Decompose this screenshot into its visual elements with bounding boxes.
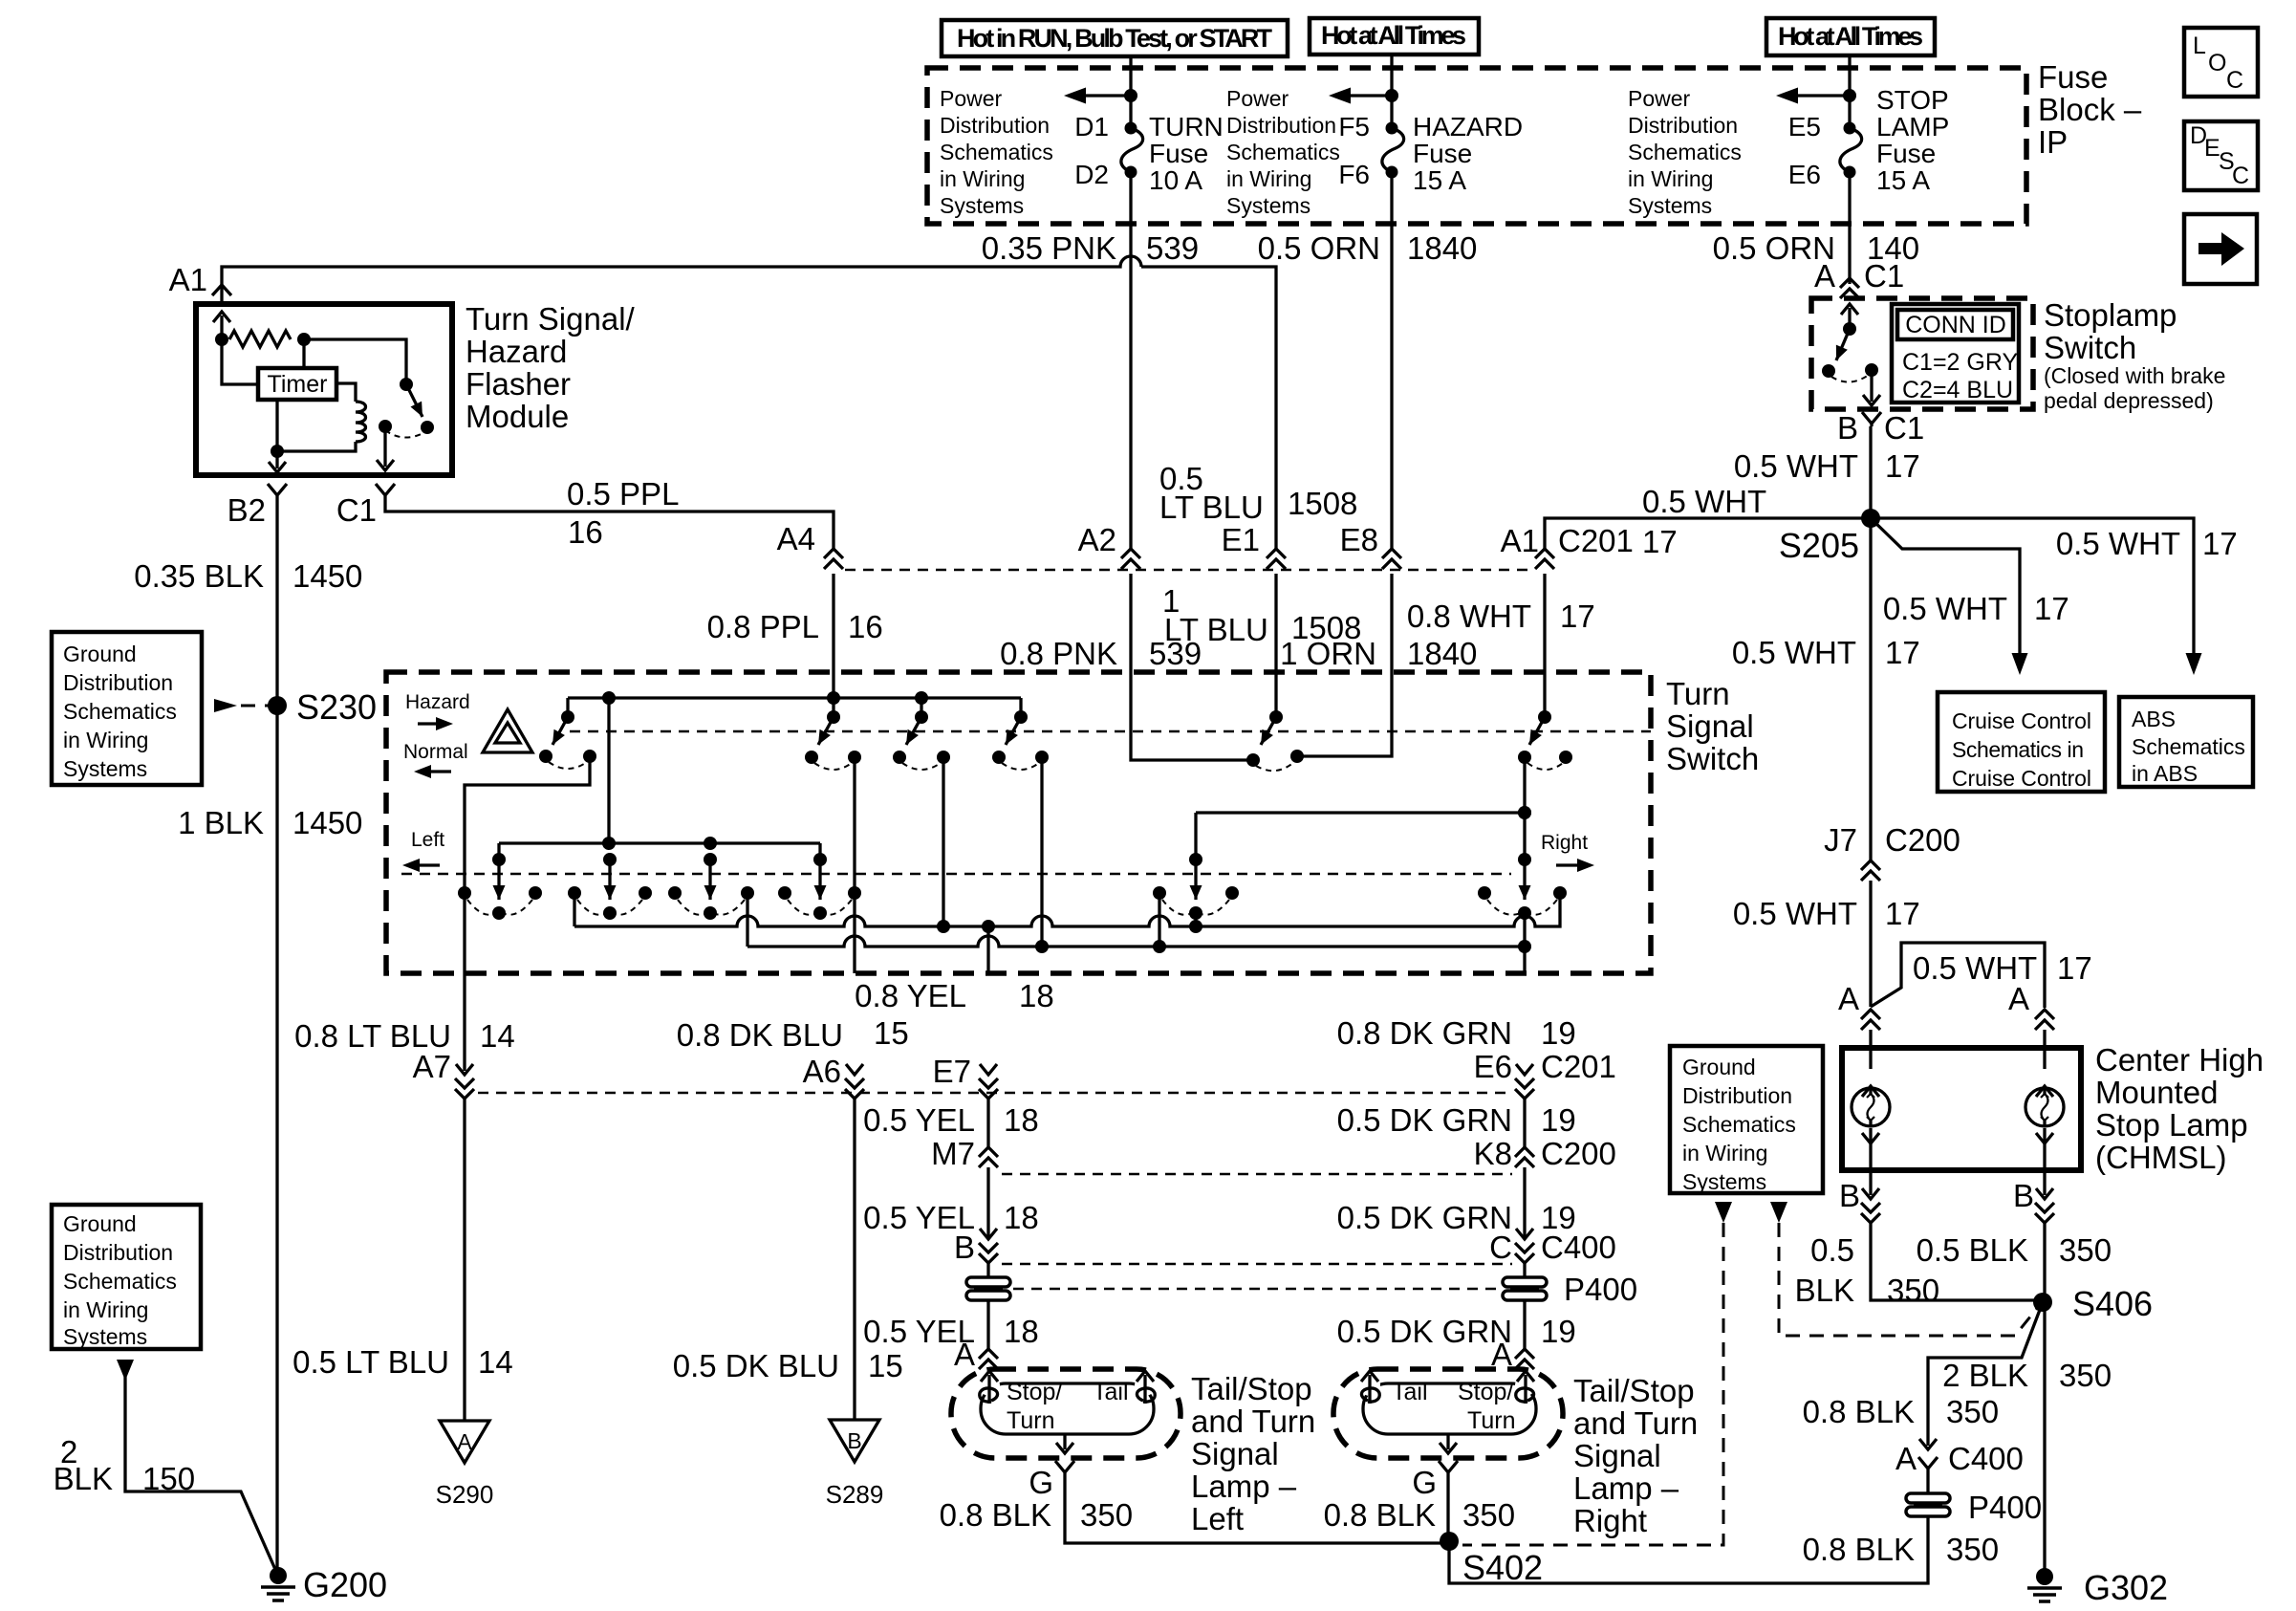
svg-text:0.5 DK GRN: 0.5 DK GRN (1337, 1314, 1512, 1349)
node S205 (1779, 509, 1880, 565)
inline connector P400 (1906, 1490, 2042, 1525)
label: 0.5 YEL | 18 third (863, 1314, 1039, 1349)
wire: DK GRN segment to K8 (1523, 1099, 1526, 1147)
right lamp tail filament (1361, 1371, 1379, 1404)
svg-text:Cruise Control: Cruise Control (1952, 766, 2091, 791)
svg-text:Turn Signal/: Turn Signal/ (466, 301, 636, 337)
label A | C1 (1814, 258, 1904, 294)
svg-text:Schematics: Schematics (1226, 140, 1340, 164)
svg-text:G: G (1029, 1465, 1053, 1500)
svg-text:Right: Right (1573, 1503, 1647, 1538)
svg-text:E7: E7 (933, 1054, 971, 1089)
svg-text:19: 19 (1541, 1314, 1576, 1349)
svg-text:S205: S205 (1779, 526, 1859, 565)
stoplamp switch output (1863, 363, 1880, 405)
wire: E1 1508 into switch (1274, 574, 1277, 717)
hazard triangle symbol (483, 709, 532, 752)
label: 0.5 WHT | 17 in bracket (1913, 950, 2092, 986)
middle contact 1251 (1153, 813, 1239, 926)
svg-text:0.5 YEL: 0.5 YEL (863, 1102, 975, 1138)
svg-text:15: 15 (868, 1348, 903, 1383)
cruise control box (1938, 692, 2105, 792)
svg-text:18: 18 (1019, 978, 1054, 1013)
svg-text:A1: A1 (1501, 523, 1539, 558)
LOC box (2184, 28, 2258, 97)
TURN fuse D1/D2 (1074, 112, 1142, 189)
label: Turn Signal/ Hazard Flasher Module (466, 301, 636, 434)
svg-text:17: 17 (2034, 591, 2069, 626)
label: Stop/ Turn (1007, 1379, 1062, 1434)
connector C1 chevron (336, 484, 395, 528)
svg-text:350: 350 (1080, 1497, 1133, 1533)
svg-text:B: B (954, 1230, 975, 1265)
label: 0.8 WHT | 17 (1407, 599, 1595, 634)
svg-text:C201: C201 (1541, 1049, 1616, 1084)
power distribution note 2 (1226, 86, 1340, 218)
svg-text:A2: A2 (1078, 522, 1116, 557)
wire: drop 1090 to bus2 (1040, 757, 1043, 947)
svg-text:A: A (1814, 258, 1835, 294)
wire: YEL segment to A (986, 1300, 989, 1349)
svg-text:Systems: Systems (63, 1324, 147, 1349)
contact E1 (1246, 710, 1304, 771)
svg-text:in Wiring: in Wiring (940, 166, 1025, 191)
svg-text:C400: C400 (1948, 1441, 2024, 1476)
svg-text:A: A (2008, 981, 2029, 1016)
svg-text:B: B (847, 1428, 861, 1453)
svg-text:16: 16 (568, 514, 603, 550)
svg-text:G: G (1412, 1465, 1437, 1500)
label: 0.8 BLK | 350 right (1324, 1497, 1515, 1533)
connector K8 chevron (1515, 1147, 1534, 1167)
label: 0.8 YEL | 18 (855, 978, 1054, 1013)
lower contact 743 (668, 853, 754, 920)
svg-text:Left: Left (1191, 1501, 1244, 1536)
wire: 0.5 DK BLU down to S289 (853, 1099, 856, 1420)
connector A C1 chevron (1840, 278, 1859, 298)
label: 0.8 PPL | 16 (707, 609, 883, 644)
svg-text:0.5 WHT: 0.5 WHT (1883, 591, 2007, 626)
label: 1 ORN | 1840 (1280, 636, 1477, 671)
svg-text:Tail/Stop: Tail/Stop (1573, 1373, 1695, 1408)
wire: timer right to coil (336, 383, 356, 402)
wire: E7 leg from bus1 (986, 926, 989, 973)
svg-text:Distribution: Distribution (63, 1240, 173, 1265)
svg-text:F5: F5 (1338, 112, 1370, 142)
svg-text:350: 350 (1946, 1394, 1999, 1429)
svg-text:in ABS: in ABS (2132, 761, 2198, 786)
label: Stoplamp Switch (2044, 297, 2225, 413)
svg-text:Normal: Normal (403, 741, 468, 763)
svg-text:A: A (954, 1337, 975, 1372)
svg-text:0.5 LT BLU: 0.5 LT BLU (292, 1344, 449, 1380)
label: Fuse Block - IP (2038, 59, 2142, 160)
label: 0.5 WHT | 17 right branch (2056, 526, 2238, 561)
svg-text:K8: K8 (1474, 1136, 1512, 1171)
svg-text:18: 18 (1004, 1200, 1039, 1235)
left lamp dashed stadium (951, 1369, 1180, 1458)
svg-text:F6: F6 (1338, 160, 1370, 189)
svg-text:0.8 BLK: 0.8 BLK (1324, 1497, 1436, 1533)
lower contact 638 (568, 853, 652, 920)
svg-text:1 ORN: 1 ORN (1280, 636, 1376, 671)
svg-text:C1=2 GRY: C1=2 GRY (1902, 349, 2018, 376)
svg-text:D1: D1 (1074, 112, 1109, 142)
svg-text:17: 17 (1560, 599, 1595, 634)
left lamp tail filament (1137, 1371, 1155, 1404)
svg-text:Schematics: Schematics (940, 140, 1053, 164)
svg-text:Ground: Ground (63, 1211, 137, 1236)
svg-text:Signal: Signal (1573, 1438, 1661, 1473)
label: 0.5 YEL | 18 (863, 1102, 1039, 1138)
svg-text:Hazard: Hazard (466, 334, 567, 369)
svg-text:BLK: BLK (1795, 1273, 1854, 1308)
label: 0.8 PNK | 539 (1000, 636, 1202, 671)
connector E1 chevron (1267, 549, 1286, 569)
svg-text:Power: Power (1628, 86, 1691, 111)
label: Center High Mounted Stop Lamp (CHMSL) (2095, 1042, 2264, 1175)
power distribution note 1 (940, 86, 1053, 218)
dashed ground lead to S406 (1770, 1202, 2039, 1336)
flasher module box (196, 304, 452, 475)
svg-text:Schematics: Schematics (63, 699, 177, 724)
connector A chevron right (2035, 1010, 2054, 1030)
coil (356, 402, 366, 442)
svg-text:C1: C1 (1884, 410, 1924, 446)
svg-text:and Turn: and Turn (1191, 1404, 1315, 1439)
label: 1 BLK | 1450 (178, 805, 362, 840)
svg-text:Hot at All Times: Hot at All Times (1321, 21, 1466, 50)
svg-text:Stoplamp: Stoplamp (2044, 297, 2177, 333)
svg-text:17: 17 (1885, 635, 1920, 670)
svg-text:0.5 BLK: 0.5 BLK (1917, 1232, 2028, 1268)
wire: run feed into TURN fuse (1064, 56, 1137, 128)
svg-text:Flasher: Flasher (466, 366, 571, 402)
stoplamp switch dashed box (1811, 298, 2033, 409)
dashed connector row C400 (1002, 1263, 1512, 1265)
wire: DK GRN segment to C (1523, 1167, 1526, 1238)
lower bank feed rail (499, 837, 820, 850)
svg-text:D2: D2 (1074, 160, 1109, 189)
contact A1 right (1518, 710, 1572, 770)
connector B chevron (979, 1229, 998, 1263)
svg-text:C: C (1489, 1230, 1512, 1265)
svg-text:C2=4 BLU: C2=4 BLU (1902, 377, 2013, 403)
svg-text:0.5: 0.5 (1810, 1232, 1854, 1268)
label: 0.8 DK BLU | 15 (677, 1015, 909, 1053)
svg-text:A: A (1895, 1441, 1917, 1476)
svg-text:Schematics: Schematics (1628, 140, 1742, 164)
wire: S205 branch to cruise control (1871, 518, 2020, 658)
connector A4 chevron (824, 549, 843, 569)
label: 0.5 WHT | 17 cruise branch (1883, 591, 2069, 626)
ground distribution box lower (52, 1205, 201, 1349)
svg-text:G302: G302 (2084, 1568, 2168, 1607)
label: HAZARD Fuse 15 A (1413, 112, 1523, 195)
svg-text:539: 539 (1146, 230, 1199, 266)
dashed connector line C201 (845, 569, 1533, 571)
svg-text:Cruise Control: Cruise Control (1952, 708, 2091, 733)
label: Normal arrow (403, 741, 468, 778)
label: 0.5 ORN | 140 (1713, 230, 1919, 266)
svg-text:Stop Lamp: Stop Lamp (2095, 1107, 2248, 1143)
wire: 0.5 WHT from A1 C201 to S205 and to ABS (1545, 518, 2194, 658)
svg-text:17: 17 (1885, 448, 1920, 484)
svg-text:150: 150 (142, 1461, 195, 1496)
label: Stop/ Turn right lamp (1458, 1379, 1515, 1434)
dashed connector row C200 (1002, 1173, 1512, 1175)
svg-text:C201: C201 (1558, 523, 1634, 558)
stoplamp switch arm (1822, 304, 1858, 378)
right lamp ground exit (1439, 1434, 1458, 1477)
label: 0.5 DK GRN | 19 (1337, 1102, 1576, 1138)
svg-text:0.5 WHT: 0.5 WHT (2056, 526, 2180, 561)
wire: coil bottom to junction (277, 442, 356, 451)
svg-text:P400: P400 (1968, 1490, 2042, 1525)
svg-text:A: A (457, 1429, 472, 1454)
svg-text:Turn: Turn (1467, 1407, 1515, 1434)
svg-text:Timer: Timer (268, 371, 328, 398)
node: junction to B2 (269, 445, 286, 472)
svg-text:14: 14 (478, 1344, 513, 1380)
svg-text:1450: 1450 (292, 805, 362, 840)
svg-text:(CHMSL): (CHMSL) (2095, 1140, 2227, 1175)
arrowhead into cruise box (2012, 653, 2028, 675)
svg-text:Fuse: Fuse (1876, 139, 1936, 168)
svg-text:17: 17 (1642, 524, 1678, 559)
wire: S406 to C400 A (1928, 1302, 2043, 1446)
right lamp racetrack (1363, 1383, 1536, 1434)
svg-text:in Wiring: in Wiring (63, 728, 148, 752)
svg-text:Stop/: Stop/ (1007, 1379, 1062, 1405)
svg-text:A6: A6 (803, 1054, 841, 1089)
label: 0.8 BLK | 350 lower (1803, 1532, 1999, 1567)
svg-text:Center High: Center High (2095, 1042, 2264, 1078)
label: 0.5 LT BLU | 1508 (1159, 461, 1357, 525)
wire: DK GRN segment to A (1523, 1300, 1526, 1349)
svg-text:P400: P400 (1564, 1272, 1637, 1307)
switch feed bus top (568, 691, 1021, 705)
label: 0.35 PNK | 539 (982, 230, 1199, 266)
svg-text:Left: Left (411, 829, 444, 851)
svg-text:A4: A4 (777, 521, 815, 556)
label: Turn Signal Switch (1666, 676, 1759, 776)
wire: P400 down and across to S402 (1449, 1516, 1928, 1583)
connector A2 chevron (1121, 549, 1140, 569)
svg-text:Fuse: Fuse (2038, 59, 2108, 95)
label: 0.5 DK GRN | 19 third (1337, 1314, 1576, 1349)
svg-text:Ground: Ground (1682, 1055, 1756, 1079)
svg-text:0.8 BLK: 0.8 BLK (1803, 1532, 1915, 1567)
svg-text:Systems: Systems (1682, 1169, 1766, 1194)
svg-text:0.8 WHT: 0.8 WHT (1407, 599, 1531, 634)
header box: Hot at All Times (hazard) (1310, 18, 1479, 54)
connector J7 C200 chevron (1861, 860, 1880, 881)
svg-text:Mounted: Mounted (2095, 1075, 2218, 1110)
left lamp ground exit (1055, 1434, 1074, 1477)
label: A | C400 (1895, 1441, 2024, 1476)
ground distribution box upper (52, 632, 202, 785)
svg-text:Hot in RUN, Bulb Test, or STAR: Hot in RUN, Bulb Test, or START (957, 24, 1273, 53)
svg-text:S230: S230 (296, 687, 377, 727)
svg-text:10 A: 10 A (1149, 165, 1202, 195)
label: 0.8 LT BLU | 14 (294, 1018, 515, 1054)
arrowhead into ABS box (2186, 653, 2202, 675)
wire: resistor to relay arm corner (304, 339, 406, 382)
label C | C400 (1489, 1230, 1616, 1265)
connector A1 chevron (212, 285, 231, 295)
wire: drop 987 to bus1 (942, 757, 944, 926)
svg-text:A1: A1 (169, 262, 207, 297)
wire: stoplamp feed into STOP LAMP fuse (1776, 55, 1856, 128)
svg-text:15 A: 15 A (1876, 165, 1930, 195)
svg-text:J7: J7 (1824, 822, 1857, 858)
wire: 0.5 LT BLU down to S290 (463, 1099, 466, 1421)
label K8 | C200 (1474, 1136, 1616, 1171)
svg-text:E8: E8 (1340, 522, 1378, 557)
svg-text:C1: C1 (336, 492, 377, 528)
resistor (215, 331, 311, 347)
relay output contact (377, 420, 394, 470)
svg-text:16: 16 (848, 609, 883, 644)
label: 2 BLK | 350 (1942, 1358, 2112, 1393)
wire: YEL segment to M7 (986, 1099, 989, 1147)
inline connector P400 left (966, 1277, 1010, 1300)
wire: A1 feed horizontal with splice bump to flasher (222, 256, 1141, 304)
connector C chevron (1515, 1229, 1534, 1263)
header box: Hot at All Times (stop lamp) (1766, 18, 1935, 55)
svg-text:18: 18 (1004, 1102, 1039, 1138)
forward arrow box (2184, 214, 2257, 284)
svg-text:(Closed with brake: (Closed with brake (2044, 363, 2225, 388)
svg-text:B: B (2013, 1178, 2034, 1213)
svg-text:in Wiring: in Wiring (1226, 166, 1311, 191)
label: 0.8 BLK | 350 (1803, 1394, 1999, 1429)
label: Right arrow (1541, 832, 1594, 872)
label: 0.5 BLK | 350 (1917, 1232, 2112, 1268)
label: 0.5 DK BLU | 15 (673, 1348, 903, 1383)
svg-text:15 A: 15 A (1413, 165, 1466, 195)
connector A6 chevron (845, 1064, 864, 1099)
lower contact dashed row (401, 873, 1511, 875)
svg-text:0.5 WHT: 0.5 WHT (1642, 484, 1766, 519)
svg-text:0.8 PNK: 0.8 PNK (1000, 636, 1117, 671)
label: Left arrow (402, 829, 444, 872)
wire: 539 PNK from TURN fuse down to A2 (1129, 172, 1132, 549)
svg-text:0.5 DK BLU: 0.5 DK BLU (673, 1348, 839, 1383)
svg-text:O: O (2208, 50, 2226, 76)
svg-text:Turn: Turn (1666, 676, 1730, 711)
label: Hazard arrow (405, 691, 470, 730)
svg-text:C: C (2232, 163, 2249, 189)
connector A chevron right column (1515, 1349, 1534, 1369)
svg-text:0.5 DK GRN: 0.5 DK GRN (1337, 1200, 1512, 1235)
label: 0.5 WHT | 17 below S205 (1732, 635, 1920, 670)
svg-text:0.5 WHT: 0.5 WHT (1733, 896, 1857, 931)
svg-text:0.5 PPL: 0.5 PPL (567, 476, 679, 512)
svg-text:C200: C200 (1541, 1136, 1616, 1171)
svg-text:Signal: Signal (1191, 1436, 1279, 1471)
connector E8 chevron (1382, 549, 1401, 569)
svg-text:A7: A7 (413, 1049, 451, 1084)
wire: YEL segment to B (986, 1167, 989, 1238)
dashed link between P400s (1013, 1288, 1501, 1290)
label: 1 LT BLU | 1508 (1162, 583, 1361, 647)
dashed ground lead to S402 (1462, 1202, 1732, 1545)
svg-text:Stop/: Stop/ (1458, 1379, 1513, 1405)
DESC box (2184, 121, 2258, 190)
svg-text:0.8 BLK: 0.8 BLK (940, 1497, 1051, 1533)
right contact 1595 (1478, 757, 1567, 973)
connector A7 chevron (455, 973, 474, 1099)
ground G200 (261, 1565, 387, 1604)
wire into right P400 (1523, 1263, 1526, 1302)
svg-text:in Wiring: in Wiring (1628, 166, 1713, 191)
svg-text:Hot at All Times: Hot at All Times (1778, 22, 1923, 51)
stoplamp switch dashed arc (1831, 375, 1869, 382)
svg-text:0.8 YEL: 0.8 YEL (855, 978, 966, 1013)
wire: module input rise arrow (213, 312, 230, 339)
svg-text:Systems: Systems (940, 193, 1024, 218)
svg-text:0.8 BLK: 0.8 BLK (1803, 1394, 1915, 1429)
label: 0.5 LT BLU | 14 (292, 1344, 513, 1380)
wire: hazard feed into HAZARD fuse (1329, 54, 1398, 128)
svg-text:Tail: Tail (1093, 1379, 1129, 1405)
svg-text:1450: 1450 (292, 558, 362, 594)
relay contact dashed arc (385, 430, 425, 438)
wire: left B lead (1861, 1170, 2036, 1300)
HAZARD fuse F5/F6 (1338, 112, 1403, 189)
svg-text:in Wiring: in Wiring (1682, 1141, 1767, 1165)
label: 0.5 / BLK | 350 (1795, 1232, 1939, 1308)
svg-text:Turn: Turn (1007, 1407, 1054, 1434)
svg-text:G200: G200 (303, 1565, 387, 1604)
svg-text:17: 17 (1885, 896, 1920, 931)
svg-text:M7: M7 (931, 1136, 975, 1171)
label: Tail/Stop and Turn Signal Lamp - Right (1573, 1373, 1698, 1538)
label: 0.5 DK GRN | 19 second (1337, 1200, 1576, 1235)
label: 0.5 ORN | 1840 (1258, 230, 1478, 266)
connector M7 chevron (979, 1147, 998, 1167)
wire: 1450 BLK from B2 down to G200 (275, 505, 278, 1576)
label: 0.8 BLK | 350 left (940, 1497, 1133, 1533)
node S406 (2033, 1284, 2153, 1323)
lower contact 522 (458, 843, 542, 920)
svg-text:Distribution: Distribution (940, 113, 1050, 138)
svg-text:Schematics in: Schematics in (1952, 737, 2084, 762)
left lamp stop/turn filament (980, 1371, 998, 1404)
wire: CHMSL jumper bracket to right A (1871, 943, 2045, 1008)
svg-text:S402: S402 (1462, 1548, 1543, 1587)
node S230 (268, 687, 377, 727)
svg-text:0.5 DK GRN: 0.5 DK GRN (1337, 1102, 1512, 1138)
svg-text:Block –: Block – (2038, 92, 2142, 127)
svg-text:C: C (2226, 67, 2243, 94)
contact A4 (805, 710, 861, 770)
CHMSL box (1842, 1048, 2081, 1170)
wire: branch to E1 (1141, 267, 1276, 549)
svg-text:17: 17 (2202, 526, 2238, 561)
wire: resistor right to timer top (302, 339, 305, 368)
svg-text:0.8 DK BLU: 0.8 DK BLU (677, 1017, 843, 1053)
svg-text:18: 18 (1004, 1314, 1039, 1349)
svg-text:Right: Right (1541, 832, 1588, 854)
svg-text:L: L (2193, 33, 2206, 59)
svg-text:Lamp –: Lamp – (1191, 1469, 1297, 1504)
svg-text:S406: S406 (2072, 1284, 2153, 1323)
svg-text:E5: E5 (1788, 112, 1821, 142)
svg-text:0.8 PPL: 0.8 PPL (707, 609, 819, 644)
